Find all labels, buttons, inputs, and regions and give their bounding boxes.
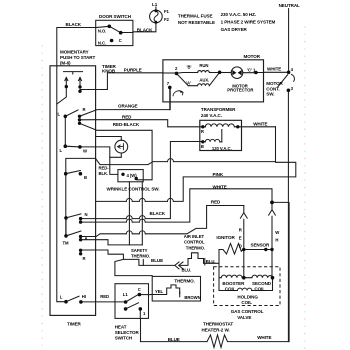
svg-text:GAS CONTROL: GAS CONTROL	[231, 309, 264, 314]
svg-text:240 V.A.C.: 240 V.A.C.	[201, 113, 222, 118]
svg-text:1 PHASE 2 WIRE SYSTEM: 1 PHASE 2 WIRE SYSTEM	[221, 20, 276, 25]
svg-text:A: A	[85, 236, 88, 241]
svg-text:R: R	[201, 129, 204, 134]
svg-text:WRINKLE CONTROL SW.: WRINKLE CONTROL SW.	[107, 187, 160, 192]
svg-text:L1: L1	[152, 2, 158, 7]
svg-text:COIL: COIL	[254, 286, 265, 291]
svg-text:RUN: RUN	[199, 63, 208, 68]
svg-text:THERMO.: THERMO.	[186, 246, 205, 251]
svg-text:BROWN: BROWN	[184, 295, 200, 300]
svg-text:E: E	[239, 236, 242, 241]
svg-text:COIL: COIL	[241, 300, 252, 305]
svg-text:'C' 1: 'C' 1	[247, 67, 256, 72]
svg-text:SW.: SW.	[266, 92, 274, 97]
svg-text:N.C.: N.C.	[98, 40, 106, 45]
svg-text:'B': 'B'	[187, 65, 192, 70]
svg-text:WHITE: WHITE	[213, 185, 227, 190]
svg-text:AIR INLET: AIR INLET	[184, 234, 205, 239]
svg-text:IGNITOR: IGNITOR	[216, 235, 235, 240]
svg-text:R: R	[83, 256, 86, 261]
svg-text:N.O.: N.O.	[98, 29, 107, 34]
svg-text:HEATER-2 W.: HEATER-2 W.	[202, 327, 230, 332]
svg-text:BLACK: BLACK	[150, 211, 166, 216]
svg-text:HI: HI	[82, 294, 86, 299]
svg-text:BLU.: BLU.	[182, 267, 192, 272]
svg-text:SECOND: SECOND	[252, 281, 272, 286]
svg-text:CONT.: CONT.	[266, 86, 279, 91]
svg-text:MOMENTARY: MOMENTARY	[60, 50, 89, 55]
svg-text:HEAT: HEAT	[115, 324, 127, 329]
svg-text:NOT RESETABLE: NOT RESETABLE	[178, 20, 215, 25]
svg-text:C: C	[119, 38, 122, 43]
svg-text:TM: TM	[63, 241, 70, 246]
svg-text:KNOB: KNOB	[102, 68, 116, 73]
svg-text:SENSOR: SENSOR	[251, 243, 271, 248]
svg-text:NEUTRAL: NEUTRAL	[279, 3, 300, 8]
svg-text:F1: F1	[164, 9, 170, 14]
svg-text:RED-BLACK: RED-BLACK	[113, 122, 140, 127]
svg-text:RED: RED	[122, 114, 132, 119]
svg-text:CONTROL: CONTROL	[184, 240, 205, 245]
svg-text:RED: RED	[100, 294, 109, 299]
svg-text:R: R	[83, 107, 86, 112]
svg-text:WHITE: WHITE	[257, 335, 271, 340]
svg-text:W: W	[275, 230, 279, 235]
svg-text:PINK: PINK	[213, 172, 224, 177]
svg-text:BLUE: BLUE	[151, 258, 163, 263]
svg-text:SELECTOR: SELECTOR	[115, 330, 140, 335]
svg-text:L: L	[60, 295, 63, 300]
svg-text:MOTOR: MOTOR	[266, 81, 283, 86]
svg-text:H: H	[275, 238, 278, 243]
svg-text:4 (W): 4 (W)	[127, 173, 138, 178]
svg-text:W: W	[83, 148, 87, 153]
svg-text:RED-: RED-	[99, 165, 110, 170]
svg-text:HOLDING: HOLDING	[237, 294, 258, 299]
svg-text:GAS DRYER: GAS DRYER	[221, 27, 248, 32]
svg-text:L1: L1	[123, 292, 129, 297]
svg-text:'A': 'A'	[186, 81, 191, 86]
svg-text:(M-6): (M-6)	[60, 61, 71, 66]
svg-text:PROTECTOR: PROTECTOR	[227, 88, 253, 93]
svg-text:PURPLE: PURPLE	[124, 68, 142, 73]
svg-text:SWITCH: SWITCH	[115, 336, 132, 341]
svg-text:THERMAL FUSE: THERMAL FUSE	[178, 13, 213, 18]
svg-text:VALVE: VALVE	[237, 315, 251, 320]
svg-text:D: D	[239, 243, 242, 248]
svg-text:SAFETY: SAFETY	[131, 248, 148, 253]
svg-text:TIMER: TIMER	[67, 321, 82, 326]
svg-text:THERMOSTAT: THERMOSTAT	[203, 321, 233, 326]
svg-text:COIL: COIL	[225, 286, 236, 291]
svg-text:DOOR SWITCH: DOOR SWITCH	[99, 14, 131, 19]
svg-text:THERMO.: THERMO.	[174, 279, 194, 284]
svg-text:RED: RED	[211, 199, 221, 204]
svg-text:R: R	[239, 228, 242, 233]
svg-text:AUX.: AUX.	[199, 78, 209, 83]
svg-text:F2: F2	[164, 17, 170, 22]
svg-text:BLU.: BLU.	[206, 259, 216, 264]
svg-text:B: B	[201, 144, 204, 149]
svg-text:WHITE: WHITE	[253, 122, 267, 127]
svg-text:BLACK: BLACK	[137, 28, 153, 33]
svg-text:BLACK: BLACK	[66, 22, 82, 27]
svg-text:B: B	[84, 175, 87, 180]
svg-text:BLK.: BLK.	[99, 171, 109, 176]
svg-text:YEL: YEL	[155, 289, 164, 294]
svg-text:230 V.A.C. 50 HZ.: 230 V.A.C. 50 HZ.	[221, 12, 256, 17]
svg-text:BLUE: BLUE	[168, 337, 180, 342]
svg-text:TRANSFORMER: TRANSFORMER	[201, 107, 236, 112]
svg-text:BOOSTER: BOOSTER	[222, 281, 245, 286]
svg-text:PUSH TO START: PUSH TO START	[60, 55, 95, 60]
svg-text:120 V.A.C.: 120 V.A.C.	[212, 146, 232, 151]
svg-text:THERMO.: THERMO.	[131, 254, 150, 259]
svg-text:N: N	[85, 212, 88, 217]
svg-text:MOTOR: MOTOR	[244, 54, 261, 59]
svg-text:C: C	[138, 287, 141, 292]
svg-text:WHITE: WHITE	[267, 66, 281, 71]
svg-text:ORANGE: ORANGE	[118, 104, 138, 109]
